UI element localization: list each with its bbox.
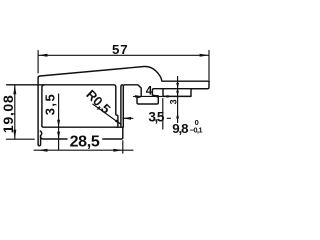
mask behind 3,5 right label bbox=[133, 110, 167, 123]
arrow 3,5 right bbox=[163, 95, 169, 98]
arrow R0,5 bbox=[115, 120, 121, 125]
arrow 4 right bbox=[152, 95, 158, 98]
arrow 9,8 left bbox=[123, 117, 131, 120]
svg-text:28,5: 28,5 bbox=[70, 134, 100, 151]
arrow 3 top bbox=[176, 83, 179, 89]
svg-text:9,8: 9,8 bbox=[172, 121, 188, 136]
svg-text:19,08: 19,08 bbox=[1, 95, 17, 133]
dim 28,5 line bbox=[34, 149, 133, 151]
mask behind 28,5 label bbox=[68, 134, 103, 147]
arrow 28,5 left bbox=[38, 149, 47, 152]
arrow 3,5 left upper bbox=[57, 120, 60, 127]
arrow 9,8 right bbox=[144, 117, 152, 120]
R0,5 leader bbox=[93, 104, 121, 124]
profile outer outline: left wall, sloped top, hump, right top slope bbox=[38, 66, 209, 144]
dim 19,08 bottom ext bbox=[6, 138, 34, 140]
arrow 4 left bbox=[135, 95, 141, 98]
svg-text:−0,1: −0,1 bbox=[190, 126, 203, 135]
svg-text:3,5: 3,5 bbox=[43, 94, 58, 115]
dim 57 left ext bbox=[37, 51, 39, 74]
svg-text:4: 4 bbox=[146, 84, 153, 97]
arrow 57 left bbox=[38, 54, 47, 57]
dim 9,8 line bbox=[123, 117, 171, 119]
svg-text:3: 3 bbox=[168, 99, 178, 104]
dim 3,5 left line bbox=[58, 94, 60, 150]
hanging wall right face, plate end, plate bottom, foot bbox=[38, 87, 123, 146]
dim 3,5 right ext bbox=[162, 98, 164, 130]
dim 57 right ext bbox=[208, 51, 210, 81]
dim 3 line bbox=[177, 77, 179, 123]
dim 57 line bbox=[38, 54, 209, 56]
arrow 28,5 right bbox=[113, 149, 122, 152]
svg-text:57: 57 bbox=[112, 42, 128, 57]
arrow 19,08 bottom bbox=[13, 130, 16, 139]
flange underside + slot left wall with step bbox=[7, 85, 118, 127]
svg-text:3,5: 3,5 bbox=[148, 110, 164, 125]
dim 28,5 right ext bbox=[122, 141, 124, 153]
arrow 3 bottom bbox=[176, 91, 179, 97]
dim 19,08 line bbox=[14, 85, 16, 139]
dim 4 and 3,5 shared line bbox=[134, 95, 192, 97]
arrow 3 tail up bbox=[176, 113, 179, 119]
arrow 57 right bbox=[200, 54, 209, 57]
slot right wall bbox=[121, 85, 123, 127]
wall inner face bump bbox=[40, 131, 41, 138]
arrow 19,08 top bbox=[13, 85, 16, 94]
gasket groove line bbox=[163, 88, 208, 90]
wall inner face and cavity floor (plate top) bbox=[42, 85, 123, 127]
right edge and lip bottom, T-slot, underside to hanging wall bbox=[123, 81, 209, 104]
arrow 3,5 left lower bbox=[57, 132, 60, 139]
